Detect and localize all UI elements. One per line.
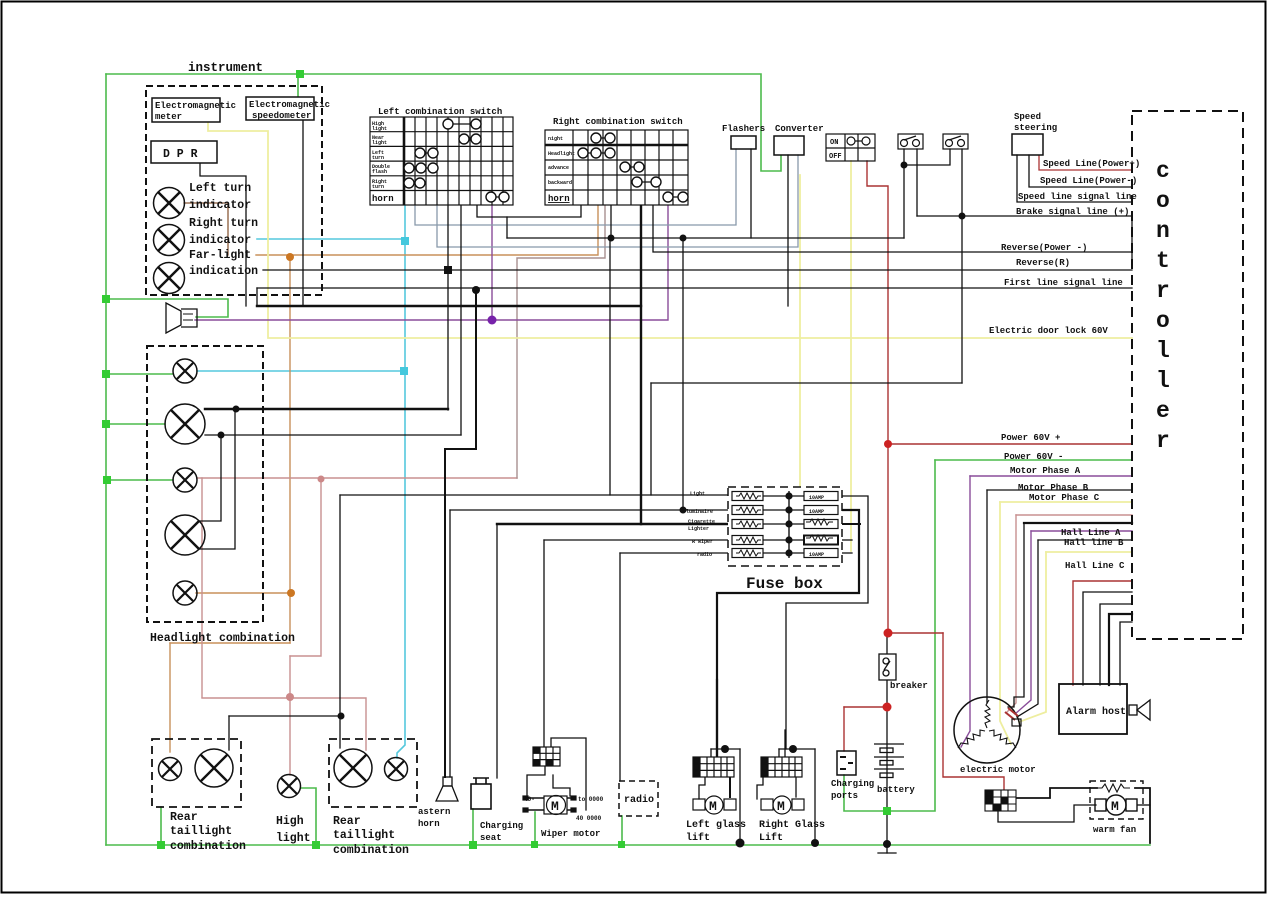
svg-text:Power 60V -: Power 60V - [1004,452,1063,462]
svg-text:High: High [276,815,304,828]
svg-text:r: r [1156,428,1170,454]
svg-text:M: M [709,799,717,814]
svg-text:Brake signal line (+): Brake signal line (+) [1016,207,1129,217]
svg-text:Motor Phase A: Motor Phase A [1010,466,1081,476]
svg-text:M: M [551,799,559,814]
svg-text:Right turn: Right turn [189,217,258,230]
svg-text:battery: battery [877,785,915,795]
svg-text:Flashers: Flashers [722,124,765,134]
svg-text:Headlight: Headlight [548,151,575,157]
svg-text:Speed: Speed [1014,112,1041,122]
svg-text:backward: backward [548,180,572,186]
svg-text:Light: Light [690,491,705,497]
svg-text:r: r [1156,278,1170,304]
svg-text:taillight: taillight [170,825,232,838]
svg-text:combination: combination [333,844,409,857]
svg-text:Reverse(R): Reverse(R) [1016,258,1070,268]
svg-text:o: o [1156,188,1170,214]
svg-text:instrument: instrument [188,61,263,75]
svg-text:light: light [372,126,387,132]
svg-text:radio: radio [624,794,654,806]
svg-text:meter: meter [155,112,182,122]
svg-text:indication: indication [189,265,258,278]
svg-text:Right combination switch: Right combination switch [553,117,683,127]
svg-text:Charging: Charging [480,821,523,831]
svg-text:OFF: OFF [829,153,842,161]
svg-text:Speed line signal line: Speed line signal line [1018,192,1137,202]
svg-text:10AMP: 10AMP [809,495,824,501]
svg-text:Lighter: Lighter [688,526,709,532]
svg-text:horn: horn [372,194,394,204]
svg-text:l: l [1156,368,1170,394]
svg-text:Hall Line C: Hall Line C [1065,561,1125,571]
svg-text:Electric door lock 60V: Electric door lock 60V [989,326,1108,336]
svg-text:Lift: Lift [759,832,783,844]
svg-text:Cigarette: Cigarette [688,519,715,525]
svg-text:n: n [1156,218,1170,244]
svg-text:e: e [1156,398,1170,424]
svg-text:Power 60V +: Power 60V + [1001,433,1060,443]
svg-text:Headlight combination: Headlight combination [150,632,295,645]
svg-text:Fuse box: Fuse box [746,575,823,593]
svg-text:Hall Line A: Hall Line A [1061,528,1121,538]
svg-text:l: l [1156,338,1170,364]
svg-text:M: M [1111,799,1119,814]
svg-text:M: M [777,799,785,814]
svg-text:10AMP: 10AMP [809,552,824,558]
svg-text:c: c [1156,158,1170,184]
svg-text:light: light [276,832,311,845]
svg-text:turn: turn [372,155,384,161]
svg-text:electric motor: electric motor [960,765,1036,775]
svg-text:10AMP: 10AMP [809,509,824,515]
svg-text:steering: steering [1014,123,1057,133]
svg-text:night: night [548,136,563,142]
svg-text:40 0000: 40 0000 [576,815,602,822]
svg-text:40-: 40- [524,796,535,803]
svg-text:Left turn: Left turn [189,182,251,195]
svg-text:Motor Phase C: Motor Phase C [1029,493,1100,503]
svg-text:turn: turn [372,184,384,190]
svg-text:Right Glass: Right Glass [759,819,825,831]
svg-text:ON: ON [830,139,838,147]
svg-text:flash: flash [372,169,387,175]
svg-text:First line signal line: First line signal line [1004,278,1123,288]
svg-text:warm fan: warm fan [1093,825,1136,835]
svg-text:Speed Line(Power-): Speed Line(Power-) [1040,176,1137,186]
svg-text:D P R: D P R [163,148,198,161]
svg-text:ports: ports [831,791,858,801]
svg-text:R wiper: R wiper [692,539,713,545]
svg-text:Rear: Rear [333,815,361,828]
svg-text:to 0000: to 0000 [578,796,604,803]
svg-text:Hall line B: Hall line B [1064,538,1124,548]
svg-text:Electromagnetic: Electromagnetic [249,100,330,110]
svg-text:Rear: Rear [170,811,198,824]
svg-text:astern: astern [418,807,450,817]
svg-text:Motor Phase B: Motor Phase B [1018,483,1089,493]
svg-text:Far-light: Far-light [189,249,251,262]
svg-text:indicator: indicator [189,234,251,247]
svg-text:Speed Line(Power+): Speed Line(Power+) [1043,159,1140,169]
svg-text:Charging: Charging [831,779,874,789]
svg-text:indicator: indicator [189,199,251,212]
svg-text:Converter: Converter [775,124,824,134]
svg-text:luminaire: luminaire [686,509,713,515]
svg-text:Alarm host: Alarm host [1066,706,1126,718]
svg-text:breaker: breaker [890,681,928,691]
svg-text:horn: horn [418,819,440,829]
svg-text:light: light [372,140,387,146]
svg-text:lift: lift [686,832,710,844]
svg-text:horn: horn [548,194,570,204]
svg-text:o: o [1156,308,1170,334]
svg-text:seat: seat [480,833,502,843]
svg-text:combination: combination [170,840,246,853]
svg-text:Reverse(Power -): Reverse(Power -) [1001,243,1087,253]
svg-text:Wiper motor: Wiper motor [541,829,600,839]
svg-text:t: t [1156,248,1170,274]
svg-text:taillight: taillight [333,829,395,842]
svg-text:advance: advance [548,165,569,171]
svg-text:Electromagnetic: Electromagnetic [155,101,236,111]
svg-text:speedometer: speedometer [252,111,311,121]
svg-text:radio: radio [697,552,712,558]
svg-text:Left combination switch: Left combination switch [378,107,502,117]
svg-text:Left glass: Left glass [686,819,746,831]
